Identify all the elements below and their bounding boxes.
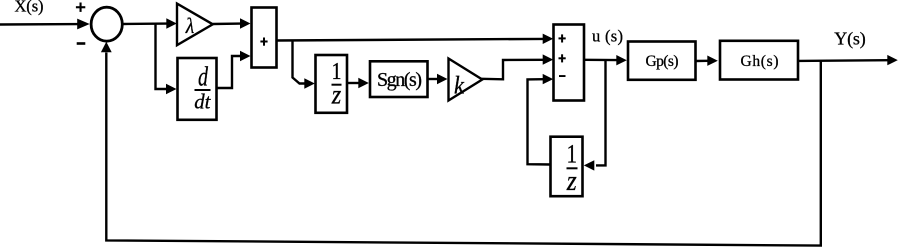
- svg-text:λ: λ: [185, 13, 195, 38]
- svg-text:z: z: [331, 80, 342, 110]
- svg-text:k: k: [454, 70, 465, 99]
- svg-text:u (s): u (s): [592, 27, 623, 46]
- svg-text:1: 1: [567, 139, 578, 168]
- svg-text:Sgn(s): Sgn(s): [377, 69, 422, 91]
- svg-text:z: z: [566, 166, 577, 197]
- svg-text:Gp(s): Gp(s): [646, 53, 679, 70]
- svg-text:d: d: [198, 62, 208, 92]
- svg-text:dt: dt: [194, 89, 211, 113]
- svg-text:Y(s): Y(s): [834, 29, 866, 50]
- svg-text:X(s): X(s): [15, 0, 44, 16]
- svg-text:Gh(s): Gh(s): [741, 53, 779, 70]
